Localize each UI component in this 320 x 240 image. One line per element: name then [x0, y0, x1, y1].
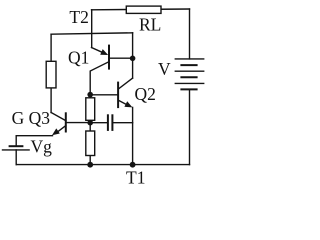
svg-text:G Q3: G Q3	[12, 108, 51, 128]
svg-text:Vg: Vg	[31, 136, 53, 156]
svg-text:Q2: Q2	[135, 84, 156, 104]
svg-text:Q1: Q1	[68, 48, 89, 68]
svg-text:T2: T2	[69, 7, 88, 27]
svg-text:T1: T1	[126, 167, 145, 187]
svg-text:V: V	[158, 59, 171, 79]
svg-text:RL: RL	[139, 15, 161, 35]
